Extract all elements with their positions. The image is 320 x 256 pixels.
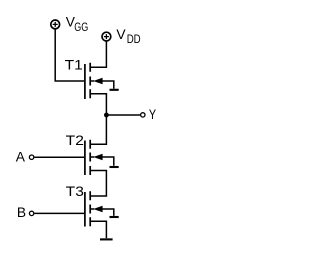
svg-text:T1: T1	[65, 57, 83, 72]
svg-text:T2: T2	[66, 133, 84, 148]
svg-text:DD: DD	[127, 34, 141, 46]
svg-text:B: B	[17, 205, 26, 220]
svg-text:V: V	[116, 27, 126, 42]
svg-text:Y: Y	[149, 107, 156, 122]
svg-text:T3: T3	[66, 184, 85, 199]
svg-text:GG: GG	[74, 22, 88, 34]
svg-text:A: A	[16, 149, 26, 164]
